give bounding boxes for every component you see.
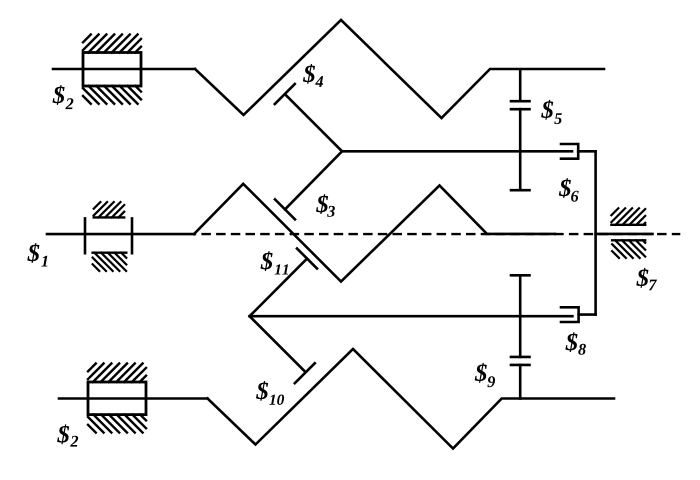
- joint $4 stem from node J1: [285, 94, 342, 151]
- wire: middle gear zigzag link: [194, 184, 555, 282]
- gear mesh $9 lower plate: [511, 364, 530, 367]
- joint $10 stem from node J2: [250, 316, 305, 371]
- bearing $1 upper hatch edge: [94, 216, 125, 218]
- label $5: [541, 100, 562, 124]
- label $1: [27, 243, 47, 266]
- gear mesh $9 upper stem: [519, 275, 522, 357]
- joint $3 contact cap: [275, 199, 295, 219]
- label $8: [565, 332, 586, 355]
- bearing $2 (top) lower ground hatch: [83, 86, 141, 104]
- bearing $1 lower ground hatch: [93, 253, 127, 271]
- joint $11 stem from node J2: [250, 259, 307, 317]
- wire: middle input shaft $1: [47, 233, 194, 236]
- gear mesh $9 upper plate: [511, 356, 530, 359]
- label $11: [261, 251, 289, 274]
- bearing $2 (bottom) upper ground hatch: [88, 364, 146, 383]
- label $9: [475, 363, 495, 387]
- bearing $2 (top) upper ground hatch: [83, 35, 141, 53]
- label $7: [636, 268, 657, 290]
- gear mesh $9 top T-bar: [511, 274, 530, 277]
- joint $3 stem from node J1: [285, 151, 342, 209]
- wire: top input shaft: [53, 68, 195, 71]
- gear mesh $5 bottom T-bar: [511, 189, 530, 192]
- label $3: [316, 194, 335, 217]
- gear mesh $5 upper plate: [511, 100, 530, 103]
- prismatic fork $6 bracket: [561, 144, 578, 159]
- label $2 (top): [53, 85, 74, 109]
- gear mesh $9 lower stem: [519, 365, 522, 399]
- prismatic fork $8 bracket: [561, 307, 579, 322]
- wire: $8 output stub: [579, 313, 596, 316]
- gear mesh $5 lower plate: [511, 108, 530, 111]
- bearing $7 lower hatch edge: [612, 239, 645, 241]
- wire: bottom input shaft: [59, 397, 208, 400]
- gear mesh $5 lower stem: [519, 109, 522, 190]
- wire: carrier arm J1 to $6: [342, 150, 572, 153]
- label $6: [559, 178, 579, 202]
- wire: top gear zigzag link: [195, 20, 604, 118]
- bearing $1 upper ground hatch: [94, 202, 125, 217]
- wire: output shaft $7: [596, 233, 653, 236]
- bearing $2 (top) housing box: [83, 53, 141, 87]
- wire: $6 output stub: [578, 150, 595, 153]
- joint $4 contact cap: [275, 84, 295, 104]
- gear mesh $5 upper stem: [519, 70, 522, 102]
- label $4: [303, 64, 323, 87]
- bearing $1 lower hatch edge: [93, 251, 127, 253]
- bearing $7 upper ground hatch: [611, 208, 645, 225]
- wire: bottom gear zigzag link: [208, 349, 615, 449]
- joint $11 contact cap: [297, 249, 317, 269]
- wire: lower carrier arm J2 to $8: [250, 315, 573, 318]
- bearing $2 (bottom) housing box: [88, 382, 146, 415]
- label $2 (bottom): [57, 424, 78, 446]
- dashed axis centerline: [194, 233, 680, 235]
- joint $10 contact cap: [295, 363, 315, 383]
- wire: right vertical link $6 to $8: [594, 151, 597, 314]
- label $10: [256, 381, 284, 405]
- bearing $7 upper hatch edge: [611, 224, 645, 226]
- bearing $7 lower ground hatch: [612, 240, 645, 258]
- bearing $1 right tick: [131, 218, 134, 253]
- bearing $2 (bottom) lower ground hatch: [88, 415, 146, 433]
- bearing $1 left tick: [84, 218, 87, 253]
